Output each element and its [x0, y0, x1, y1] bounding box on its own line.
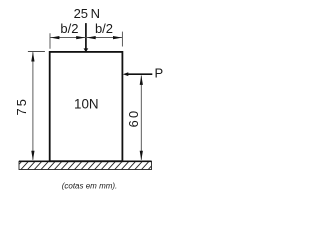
force 25N arrow line	[84, 23, 89, 52]
svg-text:10N: 10N	[74, 97, 99, 112]
svg-text:25 N: 25 N	[74, 6, 100, 21]
svg-text:60: 60	[126, 109, 141, 128]
force P arrow	[123, 72, 153, 76]
svg-text:P: P	[154, 66, 163, 81]
dimension 60 (right)	[140, 76, 142, 160]
dim line vertical	[32, 52, 34, 160]
block outline (10N body)	[50, 52, 123, 161]
svg-text:b/2: b/2	[95, 21, 113, 36]
dim arrows b/2	[50, 36, 122, 39]
extension line right (block top-right corner)	[121, 32, 123, 47]
svg-text:(cotas em mm).: (cotas em mm).	[62, 181, 118, 190]
svg-text:b/2: b/2	[60, 21, 78, 36]
dimension line b/2 b/2	[50, 32, 122, 49]
ground top line	[19, 160, 152, 162]
dimension 75 (left)	[28, 52, 45, 160]
svg-text:75: 75	[14, 97, 29, 116]
ground hatched band	[14, 161, 157, 171]
extension line top-left	[28, 51, 45, 53]
extension line left (block top-left corner)	[49, 33, 51, 49]
